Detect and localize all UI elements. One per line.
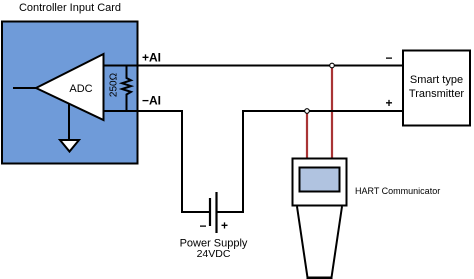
ground bbox=[60, 140, 79, 152]
HART communicator head bbox=[293, 159, 347, 206]
wire: input stub at ADC tip bbox=[13, 87, 36, 89]
svg-text:Smart type: Smart type bbox=[410, 74, 463, 86]
wire: -AI bottom wire from ADC to power supply negative bbox=[103, 111, 209, 212]
wire: from power supply positive up to transmitter + bbox=[218, 111, 403, 212]
svg-text:−: − bbox=[199, 219, 206, 233]
battery B1 long bar (positive) bbox=[215, 192, 217, 233]
wire: red lead from top wire to HART communicator bbox=[331, 66, 333, 158]
svg-text:250Ω: 250Ω bbox=[109, 72, 120, 97]
wire: +AI top wire from ADC to transmitter bbox=[103, 65, 402, 67]
svg-text:Transmitter: Transmitter bbox=[409, 88, 465, 100]
wire: ground lead bbox=[68, 104, 70, 140]
wire: red lead from bottom wire to HART communicator bbox=[306, 113, 308, 159]
controller input card box bbox=[2, 22, 138, 164]
svg-text:ADC: ADC bbox=[69, 83, 92, 95]
svg-text:−AI: −AI bbox=[142, 94, 161, 108]
HART communicator screen bbox=[300, 168, 340, 192]
svg-text:HART Communicator: HART Communicator bbox=[355, 186, 440, 196]
battery B1 short bar (negative) bbox=[209, 198, 211, 226]
op-amp ADC triangle bbox=[36, 54, 104, 120]
resistor R (250 ohm) bbox=[122, 66, 131, 112]
svg-text:24VDC: 24VDC bbox=[197, 248, 231, 260]
svg-text:−: − bbox=[385, 51, 392, 65]
node: junction on top wire bbox=[330, 63, 335, 68]
HART communicator body trapezoid bbox=[297, 207, 342, 278]
svg-text:+: + bbox=[221, 219, 228, 233]
svg-text:+: + bbox=[385, 96, 392, 110]
svg-text:+AI: +AI bbox=[142, 51, 161, 65]
smart type transmitter box bbox=[403, 51, 470, 126]
svg-text:Controller Input Card: Controller Input Card bbox=[19, 2, 121, 14]
node: junction on bottom wire bbox=[305, 109, 310, 114]
